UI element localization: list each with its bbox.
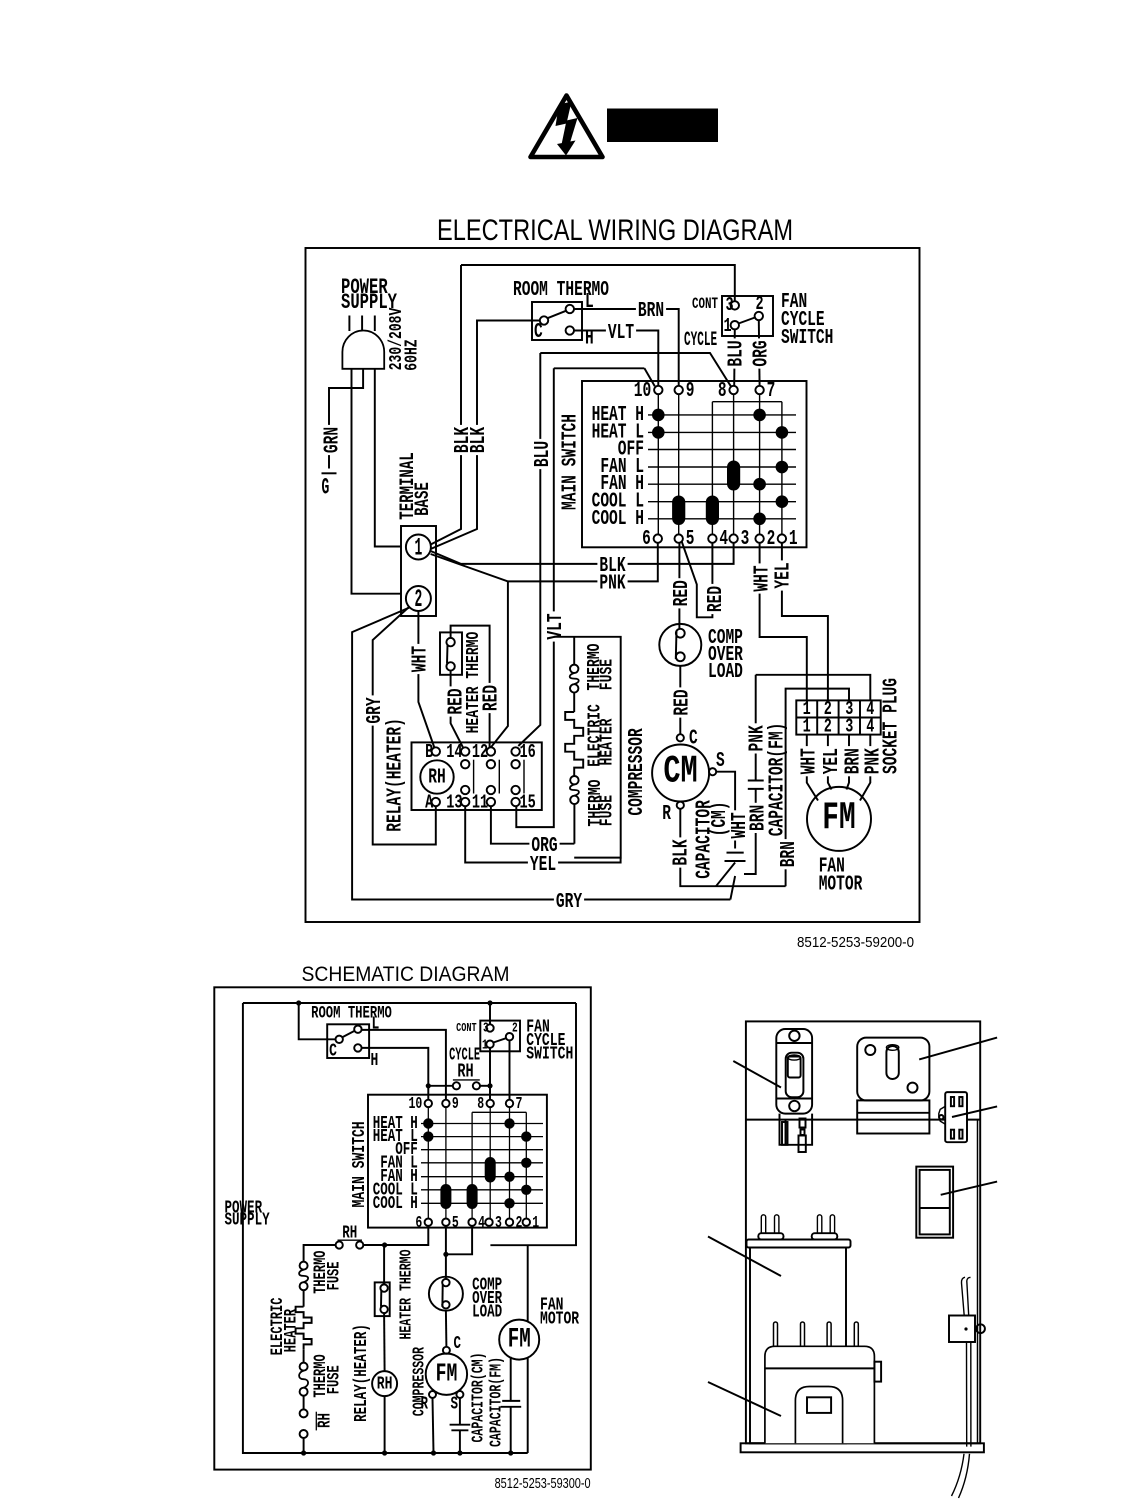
svg-text:CYCLE: CYCLE [449,1046,480,1066]
svg-text:FUSE: FUSE [595,659,617,690]
svg-text:BLK: BLK [671,839,694,865]
svg-text:3: 3 [726,294,734,316]
svg-text:CONT: CONT [456,1021,477,1035]
svg-text:14: 14 [446,741,462,763]
svg-text:RED: RED [705,586,728,612]
svg-text:2: 2 [767,528,776,551]
svg-text:4: 4 [719,528,728,551]
svg-text:SWITCH: SWITCH [526,1043,573,1065]
svg-text:VLT: VLT [608,322,634,345]
svg-text:60HZ: 60HZ [401,339,423,370]
svg-text:WHT: WHT [799,748,822,774]
svg-text:16: 16 [520,741,536,763]
svg-text:LOAD: LOAD [708,661,743,684]
svg-text:YEL: YEL [821,748,844,774]
svg-text:7: 7 [767,380,776,403]
svg-text:MOTOR: MOTOR [819,874,863,897]
svg-text:9: 9 [686,380,695,403]
svg-text:WHT: WHT [751,565,774,591]
svg-text:HEATER THERMO: HEATER THERMO [462,632,484,734]
svg-text:PNK: PNK [863,748,886,774]
svg-text:L: L [372,1013,380,1035]
svg-text:6: 6 [415,1214,422,1233]
svg-text:CYCLE: CYCLE [684,329,717,352]
svg-text:COMPRESSOR: COMPRESSOR [410,1347,429,1416]
svg-text:RH: RH [428,767,446,790]
svg-text:FUSE: FUSE [326,1365,345,1394]
svg-text:CAPACITOR(FM): CAPACITOR(FM) [487,1357,506,1447]
svg-text:G: G [322,476,330,502]
svg-text:15: 15 [520,792,536,814]
svg-text:GRN: GRN [322,427,345,453]
svg-text:4: 4 [478,1214,485,1233]
svg-text:SUPPLY: SUPPLY [225,1211,270,1231]
svg-text:SWITCH: SWITCH [781,327,833,350]
svg-text:3: 3 [845,716,853,738]
svg-text:RED: RED [446,688,469,714]
svg-text:10: 10 [634,380,652,403]
svg-text:HEATER: HEATER [283,1309,302,1353]
svg-text:YEL: YEL [773,562,796,588]
svg-text:HEATER: HEATER [596,718,618,766]
svg-text:2: 2 [512,1022,518,1037]
svg-text:3: 3 [741,528,750,551]
svg-text:10: 10 [409,1095,423,1114]
svg-text:1: 1 [415,535,423,563]
svg-text:COOL H: COOL H [592,508,644,531]
svg-text:PNK: PNK [599,573,625,596]
svg-text:5: 5 [452,1214,459,1233]
svg-text:RELAY(HEATER): RELAY(HEATER) [352,1324,372,1422]
svg-text:VLT: VLT [545,613,568,639]
svg-text:FM: FM [508,1325,531,1356]
svg-text:GRY: GRY [364,697,387,723]
svg-text:8: 8 [477,1095,484,1114]
svg-text:ORG: ORG [751,340,774,366]
svg-text:ELECTRICAL WIRING DIAGRAM: ELECTRICAL WIRING DIAGRAM [437,214,793,247]
svg-text:L: L [585,291,594,314]
svg-text:RED: RED [671,580,694,606]
svg-text:2: 2 [756,293,764,315]
svg-text:WHT: WHT [410,646,433,672]
svg-text:S: S [451,1395,459,1415]
svg-text:(CM): (CM) [709,802,732,837]
svg-text:CM: CM [663,750,697,794]
svg-text:RED: RED [672,689,695,715]
svg-text:8: 8 [718,380,727,403]
svg-text:6: 6 [642,528,651,551]
svg-text:11: 11 [472,792,488,814]
svg-text:2: 2 [415,586,423,614]
svg-text:COMPRESSOR: COMPRESSOR [626,728,649,816]
svg-text:RH: RH [377,1373,393,1395]
svg-text:3: 3 [483,1022,489,1037]
svg-text:12: 12 [472,741,488,763]
svg-text:8512-5253-59200-0: 8512-5253-59200-0 [797,934,914,951]
svg-text:RELAY(HEATER): RELAY(HEATER) [385,718,408,832]
svg-text:FUSE: FUSE [326,1262,345,1291]
svg-text:FM: FM [436,1359,458,1389]
svg-text:MAIN SWITCH: MAIN SWITCH [560,414,583,510]
svg-text:MOTOR: MOTOR [540,1308,580,1330]
svg-text:H: H [371,1049,379,1071]
svg-text:5: 5 [686,528,695,551]
svg-text:1: 1 [482,1039,488,1054]
svg-text:1: 1 [803,716,811,738]
svg-text:BRN: BRN [778,841,801,867]
svg-text:FUSE: FUSE [596,795,618,826]
svg-text:8512-5253-59300-0: 8512-5253-59300-0 [495,1476,591,1492]
svg-text:C: C [534,321,543,344]
svg-text:13: 13 [446,792,462,814]
svg-text:1: 1 [789,528,798,551]
svg-text:BRN: BRN [638,300,664,323]
svg-text:ROOM THERMO: ROOM THERMO [513,279,609,302]
svg-text:3: 3 [495,1214,502,1233]
svg-text:BASE: BASE [412,482,435,516]
svg-text:C: C [454,1334,462,1354]
svg-text:2: 2 [516,1214,523,1233]
svg-text:CAPACITOR(CM): CAPACITOR(CM) [470,1353,489,1443]
svg-text:1: 1 [532,1214,539,1233]
svg-text:BLK: BLK [468,427,491,453]
svg-text:A: A [425,792,433,814]
svg-text:YEL: YEL [530,854,556,877]
svg-text:COOL H: COOL H [373,1194,418,1214]
svg-text:BLU: BLU [726,340,749,366]
svg-text:ROOM THERMO: ROOM THERMO [311,1004,392,1024]
svg-text:SCHEMATIC DIAGRAM: SCHEMATIC DIAGRAM [302,962,510,986]
svg-text:S: S [716,750,725,773]
svg-text:HEATER THERMO: HEATER THERMO [398,1250,417,1340]
svg-text:RH: RH [315,1413,335,1428]
svg-text:GRY: GRY [556,891,582,914]
svg-text:LOAD: LOAD [472,1303,502,1323]
svg-text:9: 9 [452,1095,459,1114]
svg-text:RED: RED [481,685,504,711]
svg-text:BLU: BLU [532,441,555,467]
svg-text:C: C [329,1040,337,1062]
svg-text:R: R [662,803,671,826]
svg-text:MAIN SWITCH: MAIN SWITCH [348,1121,370,1207]
svg-text:4: 4 [866,716,874,738]
svg-text:FM: FM [822,796,855,840]
svg-text:CONT: CONT [692,295,718,313]
svg-text:1: 1 [724,315,732,337]
svg-text:B: B [425,741,433,763]
svg-text:2: 2 [824,716,832,738]
svg-text:7: 7 [516,1095,523,1114]
